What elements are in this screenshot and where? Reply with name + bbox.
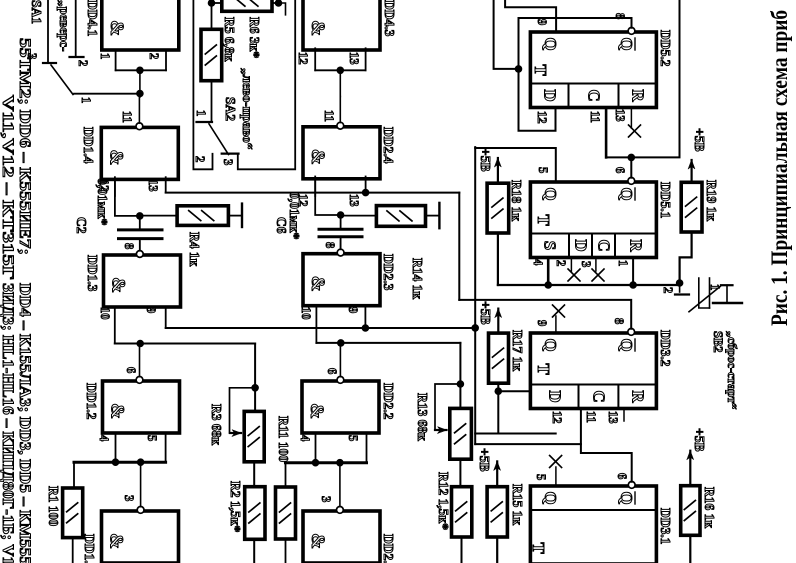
flip-flop DD5.1 bbox=[530, 182, 656, 258]
SB2 contact 2 bar bbox=[675, 293, 689, 295]
common bar at SB2 contact 1 bbox=[713, 302, 742, 304]
svg-text:DD4 – К155ЛА3; DD3, DD5 – КМ55: DD4 – К155ЛА3; DD3, DD5 – КМ555 bbox=[16, 283, 33, 563]
svg-text:Q: Q bbox=[617, 37, 636, 50]
svg-text:5: 5 bbox=[536, 167, 550, 173]
DD3.2 pin 8 Q̄ bubble bbox=[628, 329, 635, 336]
svg-text:13: 13 bbox=[146, 179, 160, 192]
svg-text:+5В: +5В bbox=[692, 128, 707, 151]
DD3.1 pin 6 Q̄ bubble bbox=[628, 482, 635, 489]
R1 lead off-page bbox=[72, 538, 74, 563]
junction to DD3.2 D input bbox=[494, 387, 502, 395]
svg-text:10: 10 bbox=[98, 307, 112, 320]
DD2.2 output bubble pin 6 bbox=[337, 377, 344, 384]
svg-text:R15 1к: R15 1к bbox=[510, 484, 525, 525]
svg-text:C: C bbox=[589, 390, 608, 402]
svg-text:&: & bbox=[307, 276, 328, 292]
svg-text:&: & bbox=[306, 403, 327, 419]
R6 top lead bbox=[272, 2, 279, 4]
wire DD4.1 to DD1.4 output bbox=[139, 70, 141, 97]
svg-text:2: 2 bbox=[76, 60, 90, 66]
junction pin3 bbox=[137, 458, 145, 466]
svg-text:12: 12 bbox=[296, 194, 310, 207]
DD5.1 pin 6 Q̄ wire to DD5.2 C net bbox=[630, 157, 632, 177]
svg-text:11: 11 bbox=[322, 110, 336, 122]
svg-text:5: 5 bbox=[346, 435, 360, 441]
svg-text:R3 68к: R3 68к bbox=[209, 404, 224, 445]
wire R15 off-page right bbox=[496, 537, 498, 563]
SA1 contact 2 wire bbox=[75, 0, 77, 57]
DD1.3 output bubble pin 8 bbox=[136, 251, 143, 258]
DD3.2 pin 9 Q stub bbox=[555, 316, 557, 333]
logic gate DD4.3 (cropped at left) bbox=[303, 0, 380, 50]
junction DD1.2 output bbox=[136, 340, 144, 348]
svg-text:T: T bbox=[534, 214, 553, 226]
wire R13-R12 bbox=[459, 459, 461, 487]
cross mark unconnected R bbox=[629, 125, 641, 137]
DD5.1 pin 5 Q output wire to S-net drop bbox=[475, 148, 556, 182]
svg-text:R11 100: R11 100 bbox=[276, 416, 291, 462]
svg-text:DD3.1: DD3.1 bbox=[658, 508, 673, 545]
DD5.1 pin 2 D stub bbox=[570, 258, 572, 272]
svg-text:11: 11 bbox=[588, 111, 602, 123]
R11 lead off-page bbox=[285, 539, 287, 563]
svg-text:11: 11 bbox=[120, 111, 134, 123]
svg-text:R17 1к: R17 1к bbox=[510, 330, 525, 371]
svg-text:12: 12 bbox=[296, 52, 310, 65]
resistor R6 3к* (cropped at left edge) bbox=[222, 0, 272, 11]
DD4.3 pin 12 wire bbox=[314, 48, 316, 70]
R14 bottom lead bbox=[341, 215, 377, 217]
svg-text:Рис. 1. Принципиальная схема п: Рис. 1. Принципиальная схема приб bbox=[767, 10, 792, 326]
svg-text:C: C bbox=[585, 89, 604, 101]
logic gate DD1.3 bbox=[104, 255, 181, 307]
DD2.3 pin 9 wire bbox=[364, 306, 366, 328]
riser pin9 net bbox=[166, 327, 476, 329]
DD1.4 output wire bbox=[138, 97, 140, 123]
DD1.1 output wire bbox=[140, 462, 142, 507]
DD1.4 output bubble pin 11 bbox=[136, 123, 143, 130]
DD2.4 pin 13 wire bbox=[365, 177, 367, 193]
svg-text:2: 2 bbox=[661, 287, 675, 293]
wire R11 to DD2 inputs bbox=[285, 463, 287, 487]
junction SA1 tap bbox=[136, 90, 144, 98]
logic gate DD2.3 bbox=[303, 254, 380, 306]
svg-text:&: & bbox=[108, 277, 129, 293]
svg-text:5: 5 bbox=[145, 435, 159, 441]
svg-text:R6 3к*: R6 3к* bbox=[247, 17, 262, 58]
DD1.4 pin12 wire bbox=[115, 177, 140, 216]
svg-text:R14 1к: R14 1к bbox=[410, 258, 425, 299]
svg-text:S: S bbox=[541, 241, 560, 250]
logic gate DD1.4 bbox=[101, 127, 178, 179]
svg-text:Q: Q bbox=[617, 491, 636, 504]
resistor R13 68к (preset) bbox=[450, 408, 472, 459]
R5 left lead bbox=[211, 0, 213, 29]
junction DD2.4 pin13 bbox=[362, 189, 370, 197]
junction R6 top bbox=[275, 0, 283, 7]
svg-text:13: 13 bbox=[347, 52, 361, 65]
wire R19 to R-net bbox=[680, 232, 692, 283]
switch SA2 contact 2 lead and off-page wire bbox=[193, 0, 212, 169]
resistor R17 1к bbox=[489, 333, 509, 383]
svg-text:DD1.2: DD1.2 bbox=[84, 383, 99, 420]
svg-text:D: D bbox=[572, 239, 591, 251]
DD2 row input join line bbox=[286, 461, 367, 464]
resistor R5 6,8к bbox=[201, 29, 222, 80]
svg-text:C6: C6 bbox=[274, 217, 289, 234]
DD1.2 pin 5 wire bbox=[165, 434, 167, 463]
wire R5 to SA2 contact 1 bbox=[211, 81, 213, 122]
DD1.1 output bubble pin 3 bbox=[137, 507, 144, 514]
svg-text:9: 9 bbox=[346, 307, 360, 313]
svg-text:6: 6 bbox=[613, 167, 627, 173]
resistor R14 1к bbox=[376, 206, 425, 227]
resistor R1 100 bbox=[63, 488, 83, 538]
svg-text:3: 3 bbox=[122, 495, 136, 501]
junction DD4.3 inputs bbox=[336, 67, 344, 75]
wire R1 to DD1 inputs bbox=[73, 462, 75, 488]
svg-text:3: 3 bbox=[221, 159, 235, 165]
R3 wiper arrow bbox=[230, 388, 256, 433]
junction S input bbox=[544, 281, 552, 289]
svg-text:T: T bbox=[529, 542, 548, 554]
DD2-row riser (DD2.2 out to R13) bbox=[316, 342, 460, 344]
DD2.4 pin12 wire bbox=[315, 177, 340, 216]
svg-text:SA2: SA2 bbox=[223, 97, 238, 121]
logic gate DD4.1 (cropped at left) bbox=[102, 0, 179, 50]
junction DD4.1 inputs bbox=[136, 67, 144, 75]
svg-text:9: 9 bbox=[535, 320, 549, 326]
switch SA1 contact 3 wire bbox=[47, 0, 49, 63]
wire R18 to rail bbox=[497, 233, 499, 285]
DD1.3 pin 10 wire bbox=[114, 306, 116, 344]
svg-text:DD5.1: DD5.1 bbox=[658, 182, 673, 219]
svg-text:„реверс-: „реверс- bbox=[57, 0, 72, 52]
svg-text:DD2.2: DD2.2 bbox=[381, 383, 396, 420]
svg-text:DD4.1: DD4.1 bbox=[85, 0, 100, 37]
svg-text:R: R bbox=[627, 239, 646, 252]
svg-text:T: T bbox=[531, 64, 550, 76]
DD3.1 pin 5 Q stub bbox=[555, 467, 557, 486]
svg-text:SB2: SB2 bbox=[711, 331, 725, 353]
svg-text:C: C bbox=[595, 239, 614, 251]
DD1.2 output bubble pin 6 bbox=[136, 377, 143, 384]
svg-text:13: 13 bbox=[613, 109, 627, 122]
svg-text:&: & bbox=[307, 533, 328, 549]
pin13-net horizontal bbox=[458, 193, 460, 300]
svg-text:„сброс-старт“: „сброс-старт“ bbox=[725, 331, 739, 409]
resistor R11 100 bbox=[276, 487, 296, 539]
resistor R12 1,5к* bbox=[452, 487, 472, 537]
resistor R3 68к (preset) bbox=[244, 411, 264, 461]
svg-text:6: 6 bbox=[124, 367, 138, 373]
svg-text:4: 4 bbox=[97, 435, 111, 442]
DD2.3 output bubble pin 8 bbox=[337, 249, 344, 256]
svg-text:DD4.3: DD4.3 bbox=[382, 0, 397, 37]
svg-text:DD2.3: DD2.3 bbox=[381, 254, 396, 291]
svg-text:9: 9 bbox=[535, 19, 549, 25]
+5В arrow R19 bbox=[690, 160, 692, 182]
+5В arrow R15 bbox=[496, 461, 498, 486]
DD5.1 pin 1 R wire bbox=[632, 258, 634, 286]
junction R3 wiper bbox=[251, 384, 259, 392]
svg-text:DD1.4: DD1.4 bbox=[81, 127, 96, 164]
svg-text:DD2.4: DD2.4 bbox=[381, 127, 396, 164]
wire R16 off-page right bbox=[689, 535, 691, 563]
svg-text:4: 4 bbox=[298, 435, 312, 442]
DD1.2 pin 4 wire bbox=[115, 434, 117, 463]
svg-text:3: 3 bbox=[25, 53, 39, 59]
DD2.4 pin 12 wire bbox=[314, 177, 316, 197]
DD2.4 output wire bbox=[339, 97, 341, 123]
DD5.2 C net from off-page bbox=[606, 0, 679, 157]
capacitor C6 0,01мк* bbox=[319, 228, 362, 231]
svg-text:8: 8 bbox=[323, 242, 337, 248]
SB2 actuator bracket bbox=[709, 278, 711, 308]
DD5.2 Q̄→D feedback wire bbox=[519, 18, 632, 131]
DD5.2 pin 13 R input stub bbox=[630, 108, 632, 129]
svg-text:Q: Q bbox=[541, 37, 560, 50]
svg-text:DD3.2: DD3.2 bbox=[658, 330, 673, 367]
svg-text:Q: Q bbox=[541, 187, 560, 200]
DD2.1 output wire bbox=[339, 463, 341, 507]
logic gate DD1.1 bbox=[102, 511, 179, 563]
svg-text:R5 6,8к: R5 6,8к bbox=[222, 17, 237, 62]
R2 lead off-page bbox=[253, 539, 255, 563]
svg-text:&: & bbox=[106, 533, 127, 549]
junction C2 bbox=[136, 212, 144, 220]
resistor R16 1к bbox=[681, 486, 700, 536]
DD4.1 pin 2 wire bbox=[165, 50, 167, 70]
junction DD2.3 pin 9 bbox=[362, 324, 370, 332]
svg-text:2: 2 bbox=[193, 156, 207, 162]
resistor R19 1к bbox=[681, 182, 702, 232]
common bar above R4 bbox=[241, 204, 243, 227]
SA2 contact 1 bar bbox=[197, 121, 213, 123]
junction R5/R6 bbox=[208, 0, 216, 7]
svg-text:13: 13 bbox=[606, 411, 620, 424]
svg-text:3: 3 bbox=[319, 496, 333, 502]
svg-text:C2: C2 bbox=[74, 217, 89, 234]
svg-text:1: 1 bbox=[616, 260, 630, 266]
wire DD4.3 to DD2.4 output bbox=[339, 70, 341, 96]
svg-text:R16 1к: R16 1к bbox=[702, 487, 717, 528]
junction pin3 bbox=[336, 459, 344, 467]
svg-text:1: 1 bbox=[98, 53, 112, 59]
svg-text:9: 9 bbox=[144, 307, 158, 313]
pin13-net riser bbox=[166, 192, 460, 194]
DD4.1 pin 1 wire bbox=[115, 50, 117, 70]
svg-text:DD1.3: DD1.3 bbox=[85, 255, 100, 292]
switch SA2 contact 3 bar bbox=[222, 153, 239, 155]
DD4.3 pin 13 wire bbox=[365, 48, 367, 70]
SA1 contact 2 bar bbox=[70, 56, 84, 58]
stub from R6 junction bbox=[279, 3, 286, 15]
svg-text:Q: Q bbox=[541, 338, 560, 351]
S-net horizontal line bbox=[474, 147, 476, 444]
common bar above R14 bbox=[438, 203, 440, 228]
svg-text:D: D bbox=[545, 390, 564, 402]
svg-text:Q: Q bbox=[617, 187, 636, 200]
junction C6 bbox=[337, 211, 345, 219]
resistor R2 1,5к* bbox=[245, 487, 265, 540]
logic gate DD2.2 bbox=[302, 381, 379, 433]
junction pin4 bbox=[312, 459, 320, 467]
SA2 contact 3 net off-page line bbox=[238, 0, 295, 169]
DD1 row input join line bbox=[74, 461, 166, 464]
DD5.2 pin 8 Q̄ bubble bbox=[628, 28, 635, 35]
R13 left lead from riser bbox=[459, 343, 461, 409]
svg-text:55ТМ2; DD6 – К555ИЕ7;: 55ТМ2; DD6 – К555ИЕ7; bbox=[16, 38, 33, 255]
S/R rail from SB2 to R18 bbox=[498, 284, 680, 286]
svg-text:8: 8 bbox=[122, 243, 136, 249]
svg-text:13: 13 bbox=[347, 194, 361, 207]
svg-text:R: R bbox=[628, 89, 647, 102]
R13 wiper arrow bbox=[435, 384, 460, 430]
svg-text:&: & bbox=[106, 20, 127, 36]
SB2 lever bbox=[689, 286, 720, 311]
DD2.1 output bubble pin 3 bbox=[337, 507, 344, 514]
svg-text:2: 2 bbox=[147, 53, 161, 59]
+5В arrow R18 bbox=[497, 158, 499, 183]
resistor R18 1к bbox=[487, 183, 509, 233]
junction pin4 bbox=[112, 458, 120, 466]
svg-text:R: R bbox=[628, 390, 647, 403]
svg-text:R1 100: R1 100 bbox=[46, 486, 61, 526]
DD3.2 Q̄ wire down to pin13 net bbox=[459, 300, 631, 329]
junction R input bbox=[629, 281, 637, 289]
svg-text:12: 12 bbox=[550, 411, 564, 424]
logic gate DD2.1 bbox=[303, 511, 380, 563]
svg-text:12: 12 bbox=[535, 111, 549, 124]
svg-text:R18 1к: R18 1к bbox=[509, 180, 524, 221]
svg-text:&: & bbox=[105, 149, 126, 165]
svg-text:R2 1,5к*: R2 1,5к* bbox=[228, 481, 243, 533]
svg-text:1: 1 bbox=[79, 97, 93, 103]
junction S-net riser bbox=[471, 324, 479, 332]
junction C net / DD5.1 Q̄ bbox=[628, 154, 636, 162]
DD2.4 output bubble pin 11 bbox=[337, 122, 344, 129]
svg-text:V11,V12 – КТ315Г: V11,V12 – КТ315Г bbox=[0, 95, 16, 280]
svg-text:4: 4 bbox=[531, 259, 545, 266]
svg-text:R4 1к: R4 1к bbox=[187, 232, 202, 267]
svg-text:D: D bbox=[540, 89, 559, 101]
wire R3-R2 bbox=[253, 462, 255, 487]
svg-text:8: 8 bbox=[612, 318, 626, 324]
svg-text:„лево-право“: „лево-право“ bbox=[240, 68, 255, 150]
logic gate DD1.2 bbox=[103, 381, 180, 433]
R4 bottom lead bbox=[140, 215, 177, 217]
DD5.2 pin 9 Q output wire bbox=[505, 0, 556, 32]
SA1 lever bbox=[51, 65, 73, 95]
svg-text:R13 68к: R13 68к bbox=[415, 393, 430, 441]
DD2.2 output wire bbox=[339, 343, 341, 377]
DD1.4 pin 13 wire bbox=[165, 177, 167, 192]
SB2 contact 1 lead bbox=[726, 285, 728, 303]
DD2.2 pin 5 wire bbox=[366, 434, 368, 463]
flip-flop DD5.2 bbox=[530, 32, 656, 108]
S-net to R17 line link bbox=[475, 433, 556, 435]
DD3.2 pin 13 stub bbox=[623, 409, 625, 422]
DD5.2 pin 11 C input wire bbox=[605, 108, 608, 158]
svg-text:1: 1 bbox=[194, 110, 208, 116]
SA1 common wire bbox=[74, 93, 140, 95]
SB2 contact 1 bar bbox=[721, 284, 733, 286]
+5В arrow R16 bbox=[689, 451, 691, 486]
logic gate DD2.4 bbox=[303, 127, 380, 179]
svg-text:T: T bbox=[534, 363, 553, 375]
DD5.1 pin 4 S wire bbox=[547, 258, 550, 286]
svg-text:R19 1к: R19 1к bbox=[704, 180, 719, 221]
R12 lead off-page bbox=[461, 537, 463, 563]
wire off-page from Q̄ net bbox=[494, 0, 519, 69]
DD4.1 input connector bbox=[116, 69, 166, 71]
svg-text:&: & bbox=[107, 403, 128, 419]
flip-flop DD3.1 (input strip cropped at right edge) bbox=[530, 486, 656, 563]
DD3.1 Q̄ wire to DD3.2 C input bbox=[581, 409, 632, 482]
capacitor C2 0,01мк* bbox=[119, 228, 163, 231]
junction Q̄ net bbox=[515, 65, 523, 73]
svg-text:2: 2 bbox=[554, 260, 568, 266]
svg-text:11: 11 bbox=[584, 411, 598, 423]
svg-text:Q: Q bbox=[617, 338, 636, 351]
wire riser top to R3 bbox=[254, 344, 256, 412]
DD2.3 output wire bbox=[340, 240, 342, 249]
svg-text:ЗИД3; HL1-HL16 – КИПД80Г-1Б; V: ЗИД3; HL1-HL16 – КИПД80Г-1Б; V1 bbox=[0, 283, 16, 563]
DD2.3 pin 10 wire bbox=[315, 306, 317, 343]
svg-text:DD2.1: DD2.1 bbox=[381, 534, 396, 563]
SA2 lever bbox=[209, 124, 229, 155]
svg-text:Q: Q bbox=[541, 491, 560, 504]
DD1.3 output wire bbox=[139, 242, 141, 251]
DD5.1 pin 6 Q̄ bubble bbox=[628, 178, 635, 185]
svg-text:10: 10 bbox=[299, 307, 313, 320]
svg-text:+5В: +5В bbox=[478, 301, 493, 324]
svg-text:&: & bbox=[307, 20, 328, 36]
DD4.3 input connector bbox=[315, 69, 365, 71]
junction R13 wiper bbox=[457, 380, 465, 388]
DD5.1 pin 3 C stub bbox=[595, 258, 597, 272]
DD1.2 output wire bbox=[139, 344, 141, 377]
push button SB2 bbox=[676, 279, 684, 287]
svg-text:&: & bbox=[307, 149, 328, 165]
svg-text:12: 12 bbox=[97, 179, 111, 192]
svg-text:SA1: SA1 bbox=[29, 0, 44, 24]
SA1 contact 3 bar bbox=[43, 62, 56, 64]
flip-flop DD3.2 bbox=[530, 333, 656, 409]
+5В arrow R17 bbox=[497, 309, 499, 334]
resistor R4 1к bbox=[177, 206, 228, 226]
resistor R15 1к bbox=[487, 487, 507, 537]
svg-text:R12 1,5к*: R12 1,5к* bbox=[436, 472, 451, 530]
DD3.1 Q̄ branch down to S-net line bbox=[475, 443, 581, 445]
DD1.3 pin 9 wire bbox=[165, 306, 167, 329]
riser DD1.2-out net bbox=[115, 343, 255, 345]
R6 bottom lead bbox=[212, 2, 222, 4]
svg-text:6: 6 bbox=[325, 368, 339, 374]
svg-text:6: 6 bbox=[615, 473, 629, 479]
junction DD2.2 output bbox=[337, 339, 345, 347]
DD2.2 pin 4 wire bbox=[315, 434, 317, 463]
wire R17 to S-net corner bbox=[497, 383, 499, 433]
svg-text:+5В: +5В bbox=[477, 448, 492, 471]
svg-text:+5В: +5В bbox=[478, 148, 493, 171]
svg-text:+5В: +5В bbox=[692, 428, 707, 451]
DD1.4 pin 12 wire bbox=[114, 177, 116, 196]
svg-text:DD5.2: DD5.2 bbox=[658, 30, 673, 67]
svg-text:3: 3 bbox=[579, 261, 593, 267]
svg-text:5: 5 bbox=[534, 474, 548, 480]
